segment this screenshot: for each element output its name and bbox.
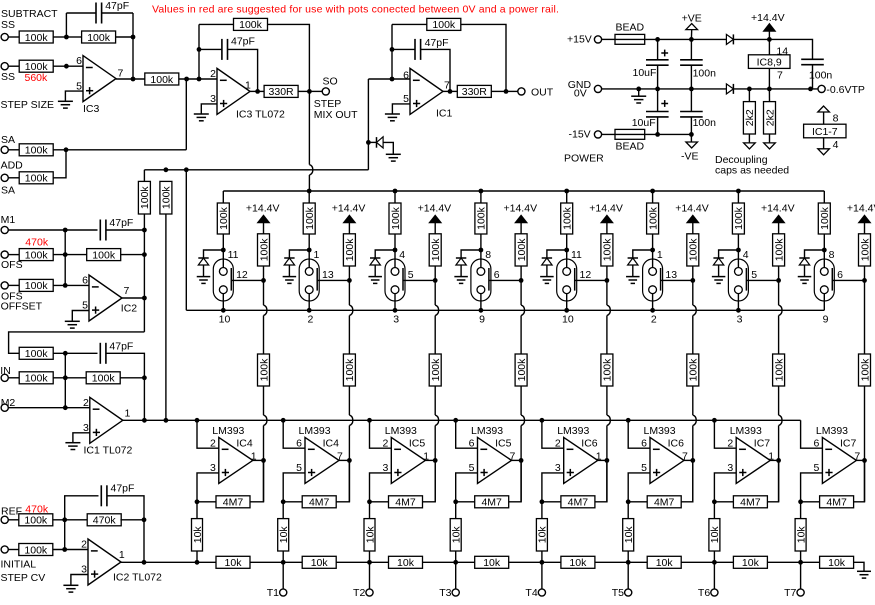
resistor 100k switch input cell 2: [303, 203, 316, 234]
svg-text:4: 4: [399, 249, 405, 261]
svg-text:-15V: -15V: [569, 129, 591, 141]
wire hop to output node cell 2: [348, 426, 350, 461]
svg-text:330R: 330R: [269, 86, 295, 98]
junction comparator 1 in- tap: [195, 418, 200, 423]
svg-text:IC1-7: IC1-7: [812, 126, 838, 138]
junction IC2 output at column: [142, 296, 147, 301]
svg-text:OUT: OUT: [531, 86, 554, 98]
terminal T5: [625, 589, 632, 596]
arrow down 2k2 b (to -VE): [764, 143, 776, 149]
junction ladder node cell 8: [798, 560, 803, 565]
junction cell 7 tap on step mix bus: [736, 189, 741, 194]
wire bus left end down (IC1 in- bus start): [143, 170, 145, 182]
resistor 10k divider cell 6: [623, 519, 635, 551]
junction +14.4V node: [767, 37, 772, 42]
junction M1 node: [63, 228, 68, 233]
terminal T1: [280, 589, 287, 596]
wire -15V rail: [602, 133, 692, 135]
wire output node to feedback corner cell 2: [348, 460, 350, 501]
text plus sign 10uF 1: [661, 50, 668, 57]
ground IC2b non-inverting input: [63, 585, 78, 592]
wire OFS2 to resistor: [8, 284, 19, 286]
svg-text:IC4: IC4: [236, 438, 253, 450]
junction diode branch: [366, 140, 371, 145]
svg-text:11: 11: [228, 249, 239, 261]
svg-text:10uF: 10uF: [632, 117, 656, 129]
svg-text:100k: 100k: [516, 238, 528, 262]
wire cell 4 100k to node: [480, 234, 482, 250]
resistor 100k pullup upper cell 1: [258, 234, 271, 266]
wire gate node down cell 7: [778, 280, 780, 305]
resistor 10k divider cell 2: [278, 519, 290, 551]
wire 4M7 to output corner cell 1: [250, 460, 264, 501]
resistor 100k switch input cell 7: [732, 203, 745, 234]
svg-text:IC7: IC7: [754, 438, 771, 450]
+14.4V arrow cell 2: [343, 215, 355, 223]
resistor 100k SS input 2: [19, 60, 53, 73]
capacitor 100n negative rail: [680, 112, 703, 117]
svg-text:4M7: 4M7: [481, 497, 502, 509]
wire cell 2 bottom contact lead: [308, 294, 310, 311]
wire arrow stem cell 3: [434, 223, 436, 234]
wire IC3b cap right lead: [228, 49, 258, 91]
wire OFS1 to resistor: [8, 254, 19, 256]
svg-text:100k: 100k: [239, 19, 263, 31]
wire hop to lower resistor cell 3: [434, 316, 436, 355]
svg-text:100k: 100k: [150, 74, 174, 86]
svg-text:10k: 10k: [397, 557, 415, 569]
resistor 4M7 hysteresis cell 8: [820, 496, 854, 509]
ground cell 5 diode: [540, 277, 554, 284]
wire lower resistor down cell 5: [606, 386, 608, 415]
wire comparator 7 in- drop: [714, 420, 736, 448]
wire comparator 4 in+ stub: [456, 473, 478, 502]
wire node to 10k cell 3: [369, 502, 371, 519]
svg-text:STEP SIZE: STEP SIZE: [1, 99, 55, 111]
wire 2k2 b top lead: [768, 89, 770, 102]
svg-text:100k: 100k: [92, 249, 116, 261]
wire cell 5 100k top lead: [566, 191, 568, 203]
wire to IC3b summing node: [179, 78, 217, 80]
wire feedback node to 4M7 cell 1: [197, 501, 216, 503]
wire comparator 5 in+ stub: [542, 473, 564, 502]
op-amp IC1 (pins 6,5,7): [410, 68, 443, 114]
junction comparator 6 in- tap: [626, 418, 631, 423]
ground IC3b non-inverting input: [194, 114, 209, 121]
wire comparator 1 in- drop: [197, 420, 219, 448]
svg-text:10: 10: [219, 314, 231, 326]
junction comparator 3 in- tap: [367, 418, 372, 423]
svg-text:3: 3: [737, 314, 743, 326]
wire cell 2 diode branch: [289, 250, 309, 258]
wire 4M7 to output corner cell 2: [336, 460, 349, 501]
junction feedback right node: [131, 35, 136, 40]
wire cell 1 bottom contact lead: [222, 294, 224, 311]
wire feedback node to 4M7 cell 8: [801, 501, 820, 503]
wire node to 10k cell 4: [455, 502, 457, 519]
gate bar cell 3: [402, 268, 404, 291]
junction comparator 5 feedback node: [540, 499, 545, 504]
wire 4M7 to output corner cell 5: [595, 460, 607, 501]
resistor 100k switch input cell 8: [818, 203, 831, 234]
svg-text:LM393: LM393: [557, 425, 589, 437]
svg-text:2: 2: [382, 438, 388, 450]
wire IC1 feedback up: [391, 24, 393, 79]
wire cell 4 top contact lead: [480, 250, 482, 268]
svg-text:6: 6: [76, 55, 82, 67]
ground IC1b non-inverting input: [65, 443, 80, 450]
wire output node to feedback corner cell 6: [692, 460, 694, 501]
svg-text:100k: 100k: [733, 206, 745, 230]
wire SA bus up to summing node: [185, 79, 187, 150]
wire cell 4 100k top lead: [480, 191, 482, 203]
wire gate cell 3 to pullup column: [403, 279, 435, 281]
svg-text:T6: T6: [698, 587, 710, 599]
junction gate node cell 5: [605, 278, 610, 283]
wire cell 5 top contact lead: [566, 250, 568, 268]
junction comparator 1 feedback node: [195, 499, 200, 504]
wire hop to lower resistor cell 2: [348, 316, 350, 355]
svg-text:100k: 100k: [516, 358, 528, 382]
comparator IC5 cell 4 (LM393): [478, 437, 512, 483]
capacitor 47pF IC2 feedback: [100, 220, 106, 241]
svg-text:10k: 10k: [795, 526, 807, 544]
svg-text:4M7: 4M7: [740, 497, 761, 509]
wire cell 6 diode branch: [633, 250, 653, 258]
wire node up to feedback cap: [65, 13, 67, 37]
diode clamp cell 5: [542, 258, 552, 265]
terminal SO step mix out: [322, 88, 329, 95]
wire IC1 cap left lead: [392, 48, 415, 50]
svg-text:+14.4V: +14.4V: [246, 202, 280, 214]
hop pullup over switch bus cell 7: [779, 305, 782, 315]
svg-text:SO: SO: [323, 75, 338, 87]
wire 330R to SO node: [298, 90, 310, 92]
diode clamp cell 3: [370, 258, 380, 265]
wire lower resistor down cell 6: [692, 386, 694, 415]
wire REF/INITIAL vertical: [64, 520, 66, 550]
wire cell 7 diode to ground: [718, 265, 720, 276]
resistor 4M7 hysteresis cell 6: [647, 496, 681, 509]
ground IC1 non-inverting input: [385, 114, 400, 121]
svg-text:100k: 100k: [390, 206, 402, 230]
wire arrow stem cell 8: [864, 223, 866, 234]
wire hop to lower resistor cell 4: [520, 316, 522, 355]
wire pullup to gate node cell 2: [348, 266, 350, 280]
wire +15V to bead: [602, 38, 615, 40]
resistor 10k ladder segment 8: [820, 556, 854, 569]
gate bar cell 5: [574, 268, 576, 291]
resistor 10k ladder segment 1: [216, 556, 250, 569]
wire 4M7 to output corner cell 8: [854, 460, 865, 501]
svg-text:T7: T7: [784, 587, 796, 599]
wire hop to output node cell 3: [434, 426, 436, 461]
wire pullup to gate node cell 1: [263, 266, 265, 280]
wire cell 8 diode branch: [805, 250, 825, 258]
junction OFS2 node: [63, 283, 68, 288]
wire node to 10k cell 5: [541, 502, 543, 519]
svg-text:BEAD: BEAD: [616, 140, 645, 152]
wire feedback node to 4M7 cell 4: [456, 501, 475, 503]
terminal OFS input 2: [1, 282, 8, 289]
wire cell 2 100k top lead: [308, 191, 310, 203]
wire cell 5 100k to node: [566, 234, 568, 250]
svg-text:10k: 10k: [483, 557, 501, 569]
svg-text:470k: 470k: [25, 236, 49, 248]
wire ladder end to ground: [853, 562, 864, 571]
wire IC3b pin3 stub: [201, 104, 217, 114]
wire comparator 1 in+ stub: [197, 473, 219, 502]
wire comparator 8 in- drop (bus end): [801, 420, 823, 448]
junction 470k at drop: [142, 517, 147, 522]
wire lower resistor down cell 4: [520, 386, 522, 415]
wire gate node down cell 4: [520, 280, 522, 305]
svg-text:10k: 10k: [364, 526, 376, 544]
hop pullup over comparator bus cell 1: [264, 415, 267, 425]
hop pullup over comparator bus cell 3: [435, 415, 438, 425]
wire IC1-7 top stem: [823, 112, 825, 124]
wire feedback top right: [267, 24, 309, 91]
diode clamp cell 6: [628, 258, 638, 265]
junction SO node: [307, 89, 312, 94]
wire M1/OFS vertical join: [64, 230, 66, 285]
wire cell 7 top contact lead: [737, 250, 739, 268]
svg-text:100k: 100k: [647, 206, 659, 230]
svg-text:BEAD: BEAD: [616, 22, 645, 34]
svg-text:IC1: IC1: [436, 108, 453, 120]
junction 10uF1 bottom: [655, 87, 660, 92]
wire cell 3 100k top lead: [394, 191, 396, 203]
svg-text:100k: 100k: [562, 206, 574, 230]
svg-text:10k: 10k: [742, 557, 760, 569]
wire IC1b in- vertical: [64, 353, 66, 407]
svg-text:2: 2: [210, 438, 216, 450]
wire comparator 8 in+ stub: [801, 473, 823, 502]
-VE arrow symbol: [686, 142, 698, 148]
svg-text:T3: T3: [439, 587, 451, 599]
diode 0V to -0.6V test point: [726, 84, 733, 94]
svg-text:3: 3: [210, 93, 216, 105]
svg-text:47pF: 47pF: [109, 340, 133, 352]
wire cap right to drop: [102, 12, 133, 14]
terminal SS input 2: [1, 63, 8, 70]
svg-text:SA: SA: [1, 134, 15, 146]
analog switch cell 3 body: [385, 259, 405, 301]
wire comparator 3 in+ stub: [370, 473, 392, 502]
junction 100n1 bottom: [689, 87, 694, 92]
junction IC3b cap tap: [197, 47, 202, 52]
resistor 4M7 hysteresis cell 4: [475, 496, 509, 509]
svg-text:IC4: IC4: [323, 438, 340, 450]
svg-text:7: 7: [124, 285, 130, 297]
svg-text:47pF: 47pF: [111, 483, 135, 495]
junction cell 3 on switch bus: [393, 308, 398, 313]
svg-text:2: 2: [727, 438, 733, 450]
svg-text:100k: 100k: [139, 186, 151, 210]
wire pullup to gate node cell 3: [434, 266, 436, 280]
ground cell 7 diode: [712, 277, 726, 284]
wire cell 3 bottom contact lead: [394, 294, 396, 311]
resistor 10k divider cell 3: [364, 519, 376, 551]
svg-text:6: 6: [837, 269, 843, 281]
wire IC1 in- row from diode branch: [368, 78, 410, 80]
svg-text:10k: 10k: [537, 526, 549, 544]
wire REF resistor to node: [53, 519, 88, 521]
svg-text:100k: 100k: [25, 280, 49, 292]
junction summing node feedback join: [197, 77, 202, 82]
resistor 10k ladder segment 7: [733, 556, 767, 569]
junction ladder node cell 4: [453, 560, 458, 565]
wire lower resistor down cell 3: [434, 386, 436, 415]
svg-text:6: 6: [403, 70, 409, 82]
wire comparator 4 output: [512, 459, 522, 461]
junction cell 2 on switch bus: [307, 308, 312, 313]
gate bar cell 8: [831, 268, 833, 291]
diode clamp cell 8: [799, 258, 809, 265]
wire IC8,9 top stem: [768, 39, 770, 54]
diode clamp at IC1 input (cathode left): [377, 137, 384, 148]
wire IC1 cap right lead: [421, 49, 450, 91]
svg-text:8: 8: [833, 113, 839, 125]
gate bar cell 1: [230, 268, 232, 291]
resistor 10k ladder segment 4: [475, 556, 509, 569]
wire M1 to cap: [8, 229, 97, 231]
wire IC1b pin3 stub: [73, 433, 90, 443]
svg-text:9: 9: [823, 314, 829, 326]
wire comparator 3 output: [425, 459, 435, 461]
svg-text:IC6: IC6: [668, 438, 685, 450]
svg-text:IC2: IC2: [121, 303, 138, 315]
junction cell 4 on switch bus: [479, 308, 484, 313]
wire output node to feedback corner cell 1: [263, 460, 265, 501]
svg-text:5: 5: [751, 269, 757, 281]
wire cell 5 diode branch: [547, 250, 567, 258]
wire cell 1 100k top lead: [222, 191, 224, 203]
wire 100n2 top lead: [690, 89, 692, 112]
diode clamp cell 1: [198, 258, 208, 265]
junction comparator output node cell 3: [433, 458, 438, 463]
wire +14.4V arrow stem: [768, 31, 770, 39]
+14.4V arrow cell 4: [515, 215, 527, 223]
wire output node to feedback corner cell 8: [864, 460, 866, 501]
wire IC2b pin3 stub: [71, 575, 88, 585]
resistor 100k switch input cell 5: [561, 203, 574, 234]
analog switch cell 6 body: [643, 259, 663, 301]
wire 10uF top lead: [657, 39, 659, 59]
wire arrow stem cell 7: [778, 223, 780, 234]
svg-text:2: 2: [83, 397, 89, 409]
svg-text:+14.4V: +14.4V: [847, 202, 875, 214]
wire output node to feedback corner cell 5: [606, 460, 608, 501]
wire SA1 resistor to bus: [53, 149, 186, 151]
svg-text:LM393: LM393: [299, 425, 331, 437]
terminal T3: [452, 589, 459, 596]
junction comparator 4 feedback node: [453, 499, 458, 504]
wire cell 6 top contact lead: [652, 250, 654, 268]
svg-text:560k: 560k: [25, 72, 49, 84]
svg-text:+14.4V: +14.4V: [751, 12, 785, 24]
contact circle bottom cell 4: [477, 286, 485, 294]
+14.4V arrow cell 3: [429, 215, 441, 223]
wire cell 6 bottom contact lead: [652, 294, 654, 311]
svg-text:5: 5: [408, 269, 414, 281]
wire node to 10k cell 2: [282, 502, 284, 519]
junction comparator output node cell 8: [862, 458, 867, 463]
resistor 100k switch input cell 6: [647, 203, 660, 234]
svg-text:11: 11: [571, 249, 582, 261]
wire node to 10k cell 6: [627, 502, 629, 519]
junction node SS1/feedback: [64, 35, 69, 40]
svg-text:330R: 330R: [462, 86, 488, 98]
wire 2k2 a bottom lead: [748, 134, 750, 142]
contact circle top cell 5: [563, 268, 571, 276]
resistor 100k pullup lower cell 7: [773, 354, 786, 386]
svg-text:1: 1: [245, 80, 251, 92]
resistor 100k pullup upper cell 7: [773, 234, 786, 266]
wire gate cell 4 to pullup column: [489, 279, 521, 281]
junction gate node cell 4: [519, 278, 524, 283]
IC box IC8,9: [748, 55, 790, 69]
svg-text:+14.4V: +14.4V: [504, 202, 538, 214]
svg-text:4: 4: [833, 139, 839, 151]
ground IC2 non-inverting input: [65, 321, 80, 328]
svg-text:100k: 100k: [430, 358, 442, 382]
junction 100n top: [689, 37, 694, 42]
junction comparator 5 in- tap: [540, 418, 545, 423]
+14.4V arrow cell 7: [773, 215, 785, 223]
resistor 100k pullup upper cell 5: [601, 234, 614, 266]
junction 100n3 bottom node: [808, 87, 813, 92]
svg-text:10k: 10k: [656, 557, 674, 569]
svg-text:47pF: 47pF: [109, 217, 133, 229]
wire feedback top left: [66, 12, 95, 14]
junction gate node cell 8: [862, 278, 867, 283]
wire 10k to ladder cell 4: [455, 551, 457, 562]
wire IC2b cap right to drop: [107, 496, 144, 563]
wire gate node down cell 3: [434, 280, 436, 305]
wire IC1 output to 330R: [443, 90, 458, 92]
wire IC2 output to column: [122, 297, 144, 299]
wire hop to output node cell 6: [692, 426, 694, 461]
contact circle bottom cell 2: [305, 286, 313, 294]
resistor 10k ladder segment 2: [302, 556, 336, 569]
wire IC1b output bus: [123, 419, 801, 421]
ground power 0V: [631, 96, 646, 103]
svg-text:+14.4V: +14.4V: [675, 202, 709, 214]
wire pullup to gate node cell 8: [864, 266, 866, 280]
svg-text:2: 2: [210, 68, 216, 80]
wire cell 7 100k top lead: [737, 191, 739, 203]
svg-text:100k: 100k: [602, 358, 614, 382]
junction cap right at column: [142, 228, 147, 233]
wire IN resistor to node: [53, 377, 86, 379]
resistor 100k pullup lower cell 2: [343, 354, 356, 386]
wire cell 1 100k to node: [222, 234, 224, 250]
svg-text:IC6: IC6: [581, 438, 598, 450]
junction 2k2 b top / IC8,9 pin7: [767, 87, 772, 92]
svg-text:LM393: LM393: [385, 425, 417, 437]
svg-text:MIX OUT: MIX OUT: [314, 109, 358, 121]
wire IC1 pin5 stub: [392, 104, 410, 114]
svg-text:100k: 100k: [24, 515, 48, 527]
arrow down IC1-7 pin 4: [818, 149, 830, 155]
wire gate node down cell 8: [864, 280, 866, 354]
junction gate node cell 1: [261, 278, 266, 283]
svg-text:100n: 100n: [809, 70, 833, 82]
wire hop to lower resistor cell 5: [606, 316, 608, 355]
svg-text:+14.4V: +14.4V: [418, 202, 452, 214]
junction comparator 2 feedback node: [281, 499, 286, 504]
